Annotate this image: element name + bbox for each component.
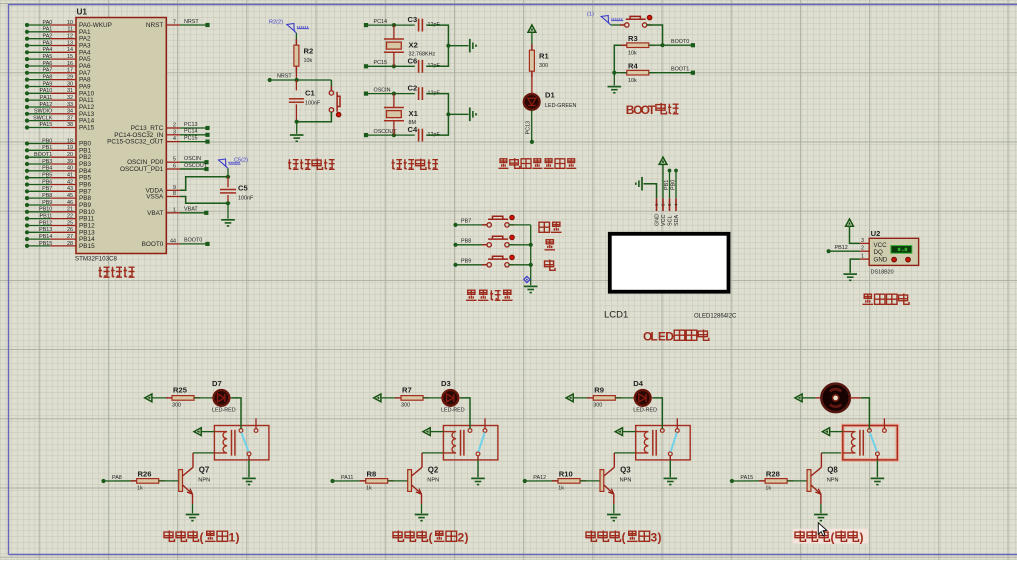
svg-text:1k: 1k [558, 486, 564, 492]
power flag for C5 net [219, 159, 226, 166]
terminal OSCOUT [364, 133, 368, 137]
ground sideways X2 [469, 39, 471, 53]
wire power to U2 VCC [850, 226, 860, 243]
svg-text:NPN: NPN [620, 478, 632, 484]
svg-text:R8: R8 [367, 470, 377, 479]
svg-text:PB0: PB0 [42, 138, 52, 144]
wire NRST horizontal [270, 79, 332, 81]
relay core bars [652, 430, 654, 456]
svg-text:30: 30 [67, 81, 73, 87]
junction rail PB8 [529, 243, 533, 247]
wire PB9 to button [456, 264, 488, 266]
transistor Q3 NPN [600, 470, 604, 492]
svg-text:R9: R9 [594, 385, 604, 394]
svg-text:T: T [648, 103, 656, 117]
svg-text:7: 7 [173, 20, 176, 26]
ground BOOT circuit [608, 86, 622, 88]
relay core bars [460, 430, 462, 456]
svg-text:(: ( [622, 531, 626, 545]
svg-text:PA8: PA8 [112, 475, 122, 481]
svg-text:D: D [665, 330, 674, 344]
resistor R4 10k [621, 72, 627, 74]
wire D4 to relay contact [653, 398, 663, 429]
wire R10 to Q3 base [580, 480, 600, 482]
svg-text:(1): (1) [587, 11, 594, 17]
svg-text:34: 34 [67, 109, 73, 115]
wire R9 to D4 [615, 397, 634, 399]
svg-text:3: 3 [861, 238, 864, 244]
ground relay pole [471, 477, 485, 479]
svg-text:NRST: NRST [146, 22, 163, 29]
relay contact common [868, 429, 872, 433]
svg-text:100nF: 100nF [238, 196, 254, 202]
wire Q8 emitter to ground [820, 504, 822, 513]
resistor R1 300 [531, 44, 533, 50]
wire relay pole to ground [477, 456, 479, 460]
U1 left pin PB12 (25) net PB12 [25, 223, 29, 227]
wire PB8 to button [456, 244, 488, 246]
relay contact NO [883, 429, 887, 433]
svg-text:C6: C6 [408, 56, 418, 65]
svg-text:(: ( [831, 531, 835, 545]
svg-text:2: 2 [861, 246, 864, 252]
svg-text:R2: R2 [304, 47, 314, 56]
svg-text:PB14: PB14 [39, 234, 52, 240]
svg-text:5: 5 [173, 157, 176, 163]
node PB9 [453, 263, 457, 267]
svg-text:C3: C3 [408, 15, 418, 24]
U1 right pin PC14-OSC32_IN (3) [166, 134, 180, 136]
wire C6 to right rail [426, 46, 448, 67]
svg-text:NRST: NRST [184, 19, 199, 25]
relay1 title 继电器(加热1) [164, 531, 175, 542]
wire R26 to Q7 base [159, 480, 179, 482]
svg-text:2: 2 [458, 531, 465, 545]
U1 left pin PB6 (42) net PB6 [25, 182, 29, 186]
reset push button [329, 91, 333, 95]
svg-text:PB12: PB12 [835, 245, 848, 251]
svg-text:PA0: PA0 [43, 20, 53, 26]
U1 left pin PA13 (34) net SWDIO [25, 112, 29, 116]
LED D1 LED-GREEN [524, 94, 540, 110]
resistor R10 1k [552, 480, 558, 482]
junction right rail X1 [446, 112, 450, 116]
wire D1 to PC13 node [531, 110, 533, 142]
svg-text:27: 27 [67, 234, 73, 240]
buttons title 独立按键 [466, 290, 477, 300]
U1 right pin PC15-OSC32_OUT (4) [166, 141, 180, 143]
svg-text:PC14: PC14 [374, 19, 388, 25]
U1 left pin PA14 (37) net SWCLK [25, 119, 29, 123]
U1 left pin PB4 (40) net PB4 [25, 169, 29, 173]
wire button PB7 to right rail [509, 224, 531, 226]
svg-text:Q2: Q2 [428, 466, 439, 475]
svg-text:PA15: PA15 [40, 122, 53, 128]
svg-text:PA4: PA4 [43, 47, 53, 53]
node PB12 [827, 249, 831, 253]
wire OLED VCC to power [662, 164, 664, 198]
svg-text:29: 29 [67, 74, 73, 80]
svg-text:PA7: PA7 [43, 68, 53, 74]
U1 left pin PA5 (15) net PA5 [25, 57, 29, 61]
svg-text:1k: 1k [366, 486, 372, 492]
svg-text:OSCIN: OSCIN [184, 156, 201, 162]
svg-text:BOOT0: BOOT0 [671, 39, 689, 45]
relay switch blade [478, 433, 484, 452]
svg-text:D4: D4 [633, 379, 643, 388]
ground sideways X1 [469, 108, 471, 122]
svg-text:38: 38 [67, 122, 73, 128]
svg-text:25: 25 [67, 220, 73, 226]
wire power to R1 [531, 32, 533, 50]
relay contact pole [476, 452, 480, 456]
node PC13 [530, 140, 534, 144]
svg-text:44: 44 [170, 238, 176, 244]
wire Q2 collector to relay coil [422, 452, 443, 454]
node PA8 [101, 479, 105, 483]
svg-text:SWDIO: SWDIO [34, 109, 52, 115]
svg-text:10k: 10k [628, 51, 637, 57]
wire boot button to R3 right [647, 25, 663, 45]
svg-text:C5: C5 [238, 184, 248, 193]
svg-text:OSCOUT_PD1: OSCOUT_PD1 [120, 166, 164, 173]
relay body [214, 426, 269, 460]
svg-text:22: 22 [67, 213, 73, 219]
node PA12 [523, 479, 527, 483]
svg-text:D1: D1 [545, 91, 555, 100]
wire Q7 collector to relay coil [193, 452, 214, 454]
svg-text:10: 10 [67, 20, 73, 26]
wire Q3 collector to relay coil [614, 452, 635, 454]
svg-text:R2(2): R2(2) [269, 20, 283, 26]
U1 left pin PA10 (31) net PA10 [25, 91, 29, 95]
node SDA PB0 [674, 169, 678, 173]
relay contact pole [247, 452, 251, 456]
svg-text:20: 20 [67, 152, 73, 158]
svg-text:PB15: PB15 [39, 241, 52, 247]
svg-text:PC13: PC13 [526, 121, 532, 135]
ground Q8 emitter [814, 514, 828, 516]
wire R4 to BOOT1 terminal [649, 72, 691, 74]
crystal title 晶振电路 [392, 159, 403, 169]
U1 left pin PB7 (43) net PB7 [25, 189, 29, 193]
svg-text:OSCIN: OSCIN [374, 87, 391, 93]
svg-text:PB15: PB15 [79, 243, 95, 250]
wire R3 to BOOT0 terminal [649, 44, 691, 46]
svg-text:PC15: PC15 [374, 60, 388, 66]
wire OLED SCL up [669, 171, 671, 199]
U1 left pin PB3 (39) net PB3 [25, 162, 29, 166]
svg-text:BOOT1: BOOT1 [671, 66, 689, 72]
push button PB7 [487, 223, 491, 227]
wire C4 to right rail [426, 114, 448, 135]
U2 pin stubs [860, 242, 869, 244]
svg-text:NPN: NPN [827, 478, 839, 484]
U1 right pin VBAT (1) [166, 212, 180, 214]
capacitor C1 100nF [289, 98, 304, 100]
relay body [843, 426, 898, 460]
junction button/R3/BOOT0 [660, 43, 664, 47]
BOOT push button [625, 23, 629, 27]
svg-text:PC13: PC13 [184, 122, 198, 128]
wire R7 to D3 [423, 397, 442, 399]
svg-text:1: 1 [861, 254, 864, 260]
LED D4 LED-RED [635, 390, 651, 406]
wire NRST to reset button [330, 80, 332, 91]
relay4 title 继电器(水泵) [795, 531, 806, 542]
svg-text:U2: U2 [871, 229, 881, 238]
node PA11 [330, 479, 334, 483]
U1 left pin PA11 (32) net PA11 [25, 98, 29, 102]
svg-text:300: 300 [539, 63, 548, 69]
svg-text:PB0: PB0 [671, 180, 677, 190]
svg-text:31: 31 [67, 88, 73, 94]
svg-text:D7: D7 [212, 379, 222, 388]
svg-text:C2: C2 [408, 84, 418, 93]
resistor R26 1k [131, 480, 137, 482]
U1 left pin PA9 (30) net PA9 [25, 84, 29, 88]
svg-text:Q7: Q7 [199, 466, 210, 475]
svg-text:12: 12 [67, 34, 73, 40]
wire R1 to D1 [531, 71, 533, 94]
U1 left pin PB8 (45) net PB8 [25, 196, 29, 200]
svg-text:VSSA: VSSA [146, 194, 164, 201]
wire flag to boot button [611, 24, 625, 26]
svg-text:D3: D3 [441, 379, 451, 388]
U1 left pin PB10 (21) net PB10 [25, 210, 29, 214]
svg-text:PC15: PC15 [184, 135, 198, 141]
svg-text:PA8: PA8 [43, 74, 53, 80]
wire PB7 to button [456, 224, 488, 226]
svg-text:40: 40 [67, 166, 73, 172]
svg-text:43: 43 [67, 186, 73, 192]
svg-text:X2: X2 [409, 40, 418, 49]
svg-text:R3: R3 [628, 34, 638, 43]
power arrow R25 [145, 394, 152, 402]
wire D3 to relay contact [460, 398, 470, 429]
OLED screen LCD1 body [608, 232, 731, 294]
svg-text:): ) [465, 531, 469, 545]
ground below C5 [221, 219, 235, 221]
wire to ground X2 [448, 45, 468, 47]
svg-text:300: 300 [401, 402, 410, 408]
svg-text:10k: 10k [304, 58, 313, 64]
relay3 title 继电器(加热3) [586, 531, 597, 542]
wire R8 to Q2 base [388, 480, 408, 482]
svg-text:(: ( [200, 531, 204, 545]
svg-text:R10: R10 [559, 470, 573, 479]
svg-text:VBAT: VBAT [184, 207, 198, 213]
svg-text:PA5: PA5 [43, 54, 53, 60]
svg-text:2: 2 [173, 123, 176, 129]
relay switch blade [241, 433, 248, 452]
wire NRST down to C1 [295, 80, 297, 90]
node SCL PB1 [668, 169, 672, 173]
svg-text:PA10: PA10 [40, 88, 53, 94]
svg-text:45: 45 [67, 193, 73, 199]
svg-text:SWCLK: SWCLK [33, 115, 53, 121]
capacitor C5 100nF [227, 177, 229, 188]
svg-text:PB9: PB9 [42, 200, 52, 206]
svg-text:GND: GND [655, 214, 661, 226]
crystal X1 8M [393, 94, 395, 108]
svg-text:R7: R7 [402, 385, 412, 394]
relay contact NO [675, 429, 679, 433]
resistor R9 300 [587, 397, 593, 399]
U1 left pin PB1 (19) net PB1 [25, 148, 29, 152]
U1 left pin PB9 (46) net PB9 [25, 203, 29, 207]
relay body [443, 426, 498, 460]
U2 red indicator dots [892, 257, 897, 262]
svg-text:PB6: PB6 [42, 179, 52, 185]
svg-text:1k: 1k [765, 486, 771, 492]
wire PA12 to R10 [525, 480, 558, 482]
svg-text:BOOT0: BOOT0 [184, 238, 202, 244]
junction node VDDA/C5 [226, 175, 230, 179]
svg-text:9: 9 [173, 185, 176, 191]
terminal PC15 [364, 64, 368, 68]
svg-text:19: 19 [67, 145, 73, 151]
power arrow relay coil [615, 428, 622, 436]
svg-text:PB1: PB1 [664, 180, 670, 190]
power arrow R9 [566, 394, 573, 402]
resistor R25 300 [166, 397, 172, 399]
svg-text:32: 32 [67, 95, 73, 101]
wire PA15 to R28 [732, 480, 765, 482]
wire U2 GND to ground [850, 259, 860, 273]
U1 left pin PA6 (16) net PA6 [25, 64, 29, 68]
power arrow DS18B20 [846, 219, 854, 226]
ground Q2 emitter [415, 514, 429, 516]
label 减 [545, 260, 556, 271]
svg-text:10k: 10k [628, 78, 637, 84]
svg-text:8M: 8M [409, 120, 417, 126]
U1 left pin PB15 (28) net PB15 [25, 244, 29, 248]
svg-text:46: 46 [67, 200, 73, 206]
wire flag to R2 [295, 33, 297, 45]
svg-text:DQ: DQ [874, 249, 883, 256]
svg-text:15: 15 [67, 54, 73, 60]
svg-text:PB11: PB11 [40, 213, 53, 219]
wire R3 left rail [614, 45, 627, 72]
right rail of buttons [530, 225, 532, 285]
U1 left pin PB14 (27) net PB14 [25, 237, 29, 241]
ground relay pole [664, 477, 678, 479]
OLED pin stubs GND VCC SCL SDA [656, 198, 658, 211]
main chip title 主芯片 [99, 267, 110, 277]
svg-text:3: 3 [173, 129, 176, 135]
ground relay pole [871, 477, 885, 479]
svg-text:42: 42 [67, 179, 73, 185]
ground reset circuit [290, 134, 304, 136]
relay coil [636, 432, 649, 453]
junction NRST/R2/C1 [295, 78, 299, 82]
svg-text:VBAT: VBAT [147, 210, 163, 217]
resistor R3 10k [621, 44, 627, 46]
terminal PC14 [364, 23, 368, 27]
relay switch blade [671, 433, 677, 452]
resistor R8 1k [360, 480, 366, 482]
svg-text:PC14: PC14 [184, 129, 198, 135]
svg-text:(: ( [429, 531, 433, 545]
svg-text:R4: R4 [628, 62, 638, 71]
ground buttons [524, 285, 538, 287]
wire PC15 row [366, 65, 415, 67]
node PA15 [730, 479, 734, 483]
ground Q3 emitter [607, 514, 621, 516]
svg-text:R1: R1 [539, 52, 549, 61]
wire C5 to ground [227, 203, 229, 218]
wire OLED SDA up [675, 171, 677, 199]
svg-text:PB7: PB7 [461, 219, 471, 225]
wire button PB8 to right rail [509, 244, 531, 246]
wire OLED GND to side ground [644, 184, 657, 199]
svg-text:PB9: PB9 [461, 259, 471, 265]
U1 left pin PB13 (26) net PB13 [25, 230, 29, 234]
transistor Q8 NPN [807, 470, 811, 492]
svg-text:3: 3 [651, 531, 658, 545]
svg-text:SCL: SCL [668, 216, 674, 227]
svg-text:33: 33 [67, 102, 73, 108]
wire relay pole to ground [876, 456, 878, 460]
svg-text:R26: R26 [138, 470, 152, 479]
push button PB8 [487, 243, 491, 247]
svg-text:300: 300 [593, 402, 602, 408]
wire D7 to relay contact [231, 398, 241, 429]
svg-text:11: 11 [67, 27, 73, 33]
node PB8 [453, 243, 457, 247]
wire VSSA to C5 bottom [180, 197, 228, 204]
wire power flag to C5 [227, 169, 229, 177]
relay switch blade [870, 433, 877, 452]
svg-text:BOOT0: BOOT0 [142, 241, 164, 248]
U1 right pin OSCIN_PD0 (5) [166, 161, 180, 163]
sideways ground OLED [641, 177, 643, 191]
label 加 [545, 240, 556, 250]
U1 left pin PA0-WKUP (10) net PA0 [25, 23, 29, 27]
svg-text:4: 4 [173, 136, 176, 142]
wire relay pole to ground [669, 456, 671, 460]
relay contact NO [483, 429, 487, 433]
svg-text:8: 8 [173, 191, 176, 197]
power arrow R7 [374, 394, 381, 402]
relay contact NO [254, 429, 258, 433]
svg-text:VCC: VCC [874, 242, 888, 249]
relay body [636, 426, 691, 460]
svg-text:21: 21 [67, 207, 73, 213]
relay contact common [660, 429, 664, 433]
U1 right pin NRST (7) [166, 24, 180, 26]
reset title 复位电路 [288, 159, 299, 169]
power flag (1) BOOT [601, 16, 608, 23]
svg-text:LED-RED: LED-RED [441, 407, 465, 413]
svg-text:PB8: PB8 [461, 239, 471, 245]
svg-text:100nF: 100nF [305, 101, 321, 107]
svg-text:PB8: PB8 [42, 193, 52, 199]
label 设置 [539, 222, 550, 232]
U1 left pin PA7 (17) net PA7 [25, 71, 29, 75]
svg-text:PA9: PA9 [43, 81, 53, 87]
svg-text:41: 41 [67, 173, 73, 179]
svg-text:32.768KHz: 32.768KHz [409, 51, 436, 57]
wire PA11 to R8 [333, 480, 366, 482]
origin marker blue diamond [524, 276, 530, 282]
wire R4 left [614, 72, 627, 74]
motor water pump [816, 397, 822, 399]
U1 left pin PA8 (29) net PA8 [25, 78, 29, 82]
U1 left pin PB11 (22) net PB11 [25, 217, 29, 221]
ground DS18B20 [843, 273, 857, 275]
